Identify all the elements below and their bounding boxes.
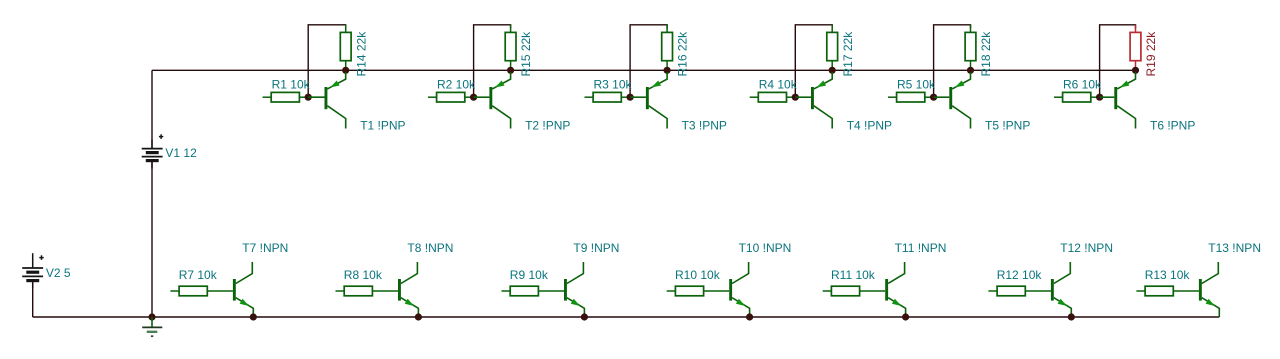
junction base node stage 3 <box>627 94 634 101</box>
junction base node stage 2 <box>470 94 477 101</box>
wire base loop stage 5 <box>934 25 971 97</box>
wire base loop stage 6 <box>1100 25 1136 97</box>
ground <box>142 317 162 336</box>
junction emitter node T8 <box>415 313 422 320</box>
wire V1 negative (battery down to ground node) <box>151 162 153 318</box>
resistor R2 <box>428 92 474 102</box>
transistor T4 (PNP) <box>795 72 832 128</box>
transistor T2 (PNP) <box>474 72 511 128</box>
svg-text:T12 !NPN: T12 !NPN <box>1060 241 1113 255</box>
svg-text:R12 10k: R12 10k <box>997 268 1043 282</box>
svg-text:R19 22k: R19 22k <box>1144 31 1158 77</box>
svg-text:R2 10k: R2 10k <box>437 78 476 92</box>
transistor T1 (PNP) <box>308 72 346 128</box>
junction emitter node T11 <box>902 313 909 320</box>
transistor T8 (NPN) <box>398 262 418 317</box>
svg-text:R13 10k: R13 10k <box>1145 268 1191 282</box>
svg-text:R17 22k: R17 22k <box>841 31 855 77</box>
resistor R16 <box>662 25 673 71</box>
resistor R7 <box>170 286 233 296</box>
svg-text:T5 !PNP: T5 !PNP <box>985 118 1030 132</box>
wire base loop stage 4 <box>795 25 832 97</box>
resistor R15 <box>505 25 516 71</box>
transistor T13 (NPN) <box>1199 262 1219 317</box>
resistor R19 <box>1130 25 1141 71</box>
svg-text:T10 !NPN: T10 !NPN <box>739 241 792 255</box>
transistor T10 (NPN) <box>729 262 749 317</box>
svg-text:R7 10k: R7 10k <box>179 268 218 282</box>
svg-text:R6 10k: R6 10k <box>1063 78 1102 92</box>
junction node rail stage 4 <box>829 67 836 74</box>
svg-text:R5 10k: R5 10k <box>897 78 936 92</box>
resistor R13 <box>1136 286 1199 296</box>
svg-text:T2 !PNP: T2 !PNP <box>525 118 570 132</box>
svg-text:T9 !NPN: T9 !NPN <box>573 241 619 255</box>
junction node rail stage 3 <box>664 67 671 74</box>
transistor T5 (PNP) <box>934 72 971 128</box>
resistor R4 <box>750 92 796 102</box>
svg-text:T13 !NPN: T13 !NPN <box>1208 241 1261 255</box>
svg-text:R14 22k: R14 22k <box>354 31 368 77</box>
junction node rail stage 5 <box>967 67 974 74</box>
svg-text:R4 10k: R4 10k <box>759 78 798 92</box>
junction base node stage 5 <box>930 94 937 101</box>
svg-text:R3 10k: R3 10k <box>594 78 633 92</box>
junction emitter node T7 <box>250 313 257 320</box>
junction node rail stage 2 <box>507 67 514 74</box>
svg-text:R1 10k: R1 10k <box>272 78 311 92</box>
junction emitter node T10 <box>746 313 753 320</box>
svg-text:T4 !PNP: T4 !PNP <box>847 118 892 132</box>
junction base node stage 6 <box>1096 94 1103 101</box>
resistor R9 <box>502 286 565 296</box>
svg-text:V2 5: V2 5 <box>46 266 71 280</box>
resistor R17 <box>827 25 838 71</box>
resistor R5 <box>888 92 934 102</box>
svg-text:R8 10k: R8 10k <box>344 268 383 282</box>
transistor T6 (PNP) <box>1100 72 1136 128</box>
svg-text:V1 12: V1 12 <box>165 146 197 160</box>
wire V2 negative (battery down to bottom rail) <box>32 282 34 318</box>
svg-text:T11 !NPN: T11 !NPN <box>895 241 947 255</box>
svg-text:R11 10k: R11 10k <box>831 268 876 282</box>
resistor R1 <box>263 92 309 102</box>
wire top rail <box>152 69 1136 71</box>
wire bottom rail <box>33 316 1220 318</box>
junction ground node <box>148 313 155 320</box>
svg-text:T1 !PNP: T1 !PNP <box>360 118 405 132</box>
wire base loop stage 2 <box>474 25 511 97</box>
svg-text:T8 !NPN: T8 !NPN <box>407 241 453 255</box>
junction node rail stage 6 <box>1132 67 1139 74</box>
junction node rail stage 1 <box>342 67 349 74</box>
svg-text:T3 !PNP: T3 !PNP <box>682 118 727 132</box>
transistor T12 (NPN) <box>1051 262 1071 317</box>
resistor R11 <box>823 286 886 296</box>
transistor T7 (NPN) <box>233 262 253 317</box>
resistor R10 <box>667 286 730 296</box>
resistor R14 <box>340 25 351 71</box>
svg-text:R10 10k: R10 10k <box>675 268 721 282</box>
resistor R18 <box>965 25 976 71</box>
junction base node stage 4 <box>792 94 799 101</box>
transistor T9 (NPN) <box>564 262 584 317</box>
svg-text:R9 10k: R9 10k <box>510 268 549 282</box>
junction base node stage 1 <box>305 94 312 101</box>
svg-text:T7 !NPN: T7 !NPN <box>242 241 288 255</box>
svg-text:T6 !PNP: T6 !PNP <box>1150 118 1195 132</box>
resistor R8 <box>336 286 399 296</box>
wire base loop stage 3 <box>630 25 667 97</box>
resistor R3 <box>585 92 631 102</box>
transistor T11 (NPN) <box>885 262 905 317</box>
transistor T3 (PNP) <box>630 72 667 128</box>
battery V2 <box>22 253 44 288</box>
svg-text:R15 22k: R15 22k <box>519 31 533 77</box>
resistor R12 <box>988 286 1051 296</box>
svg-text:R16 22k: R16 22k <box>676 31 690 77</box>
svg-text:R18 22k: R18 22k <box>979 31 993 77</box>
wire V1 positive (top rail corner down to battery) <box>151 70 153 148</box>
junction emitter node T9 <box>581 313 588 320</box>
resistor R6 <box>1054 92 1100 102</box>
junction emitter node T12 <box>1068 313 1075 320</box>
battery V1 <box>142 134 164 168</box>
wire base loop stage 1 <box>308 25 346 97</box>
